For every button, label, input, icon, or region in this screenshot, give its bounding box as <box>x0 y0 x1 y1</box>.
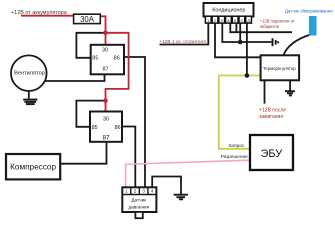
svg-text:+12В от аккумулятора: +12В от аккумулятора <box>11 10 68 16</box>
svg-text:Датчик обмораживания: Датчик обмораживания <box>285 9 333 14</box>
svg-text:86: 86 <box>114 56 120 62</box>
svg-text:30: 30 <box>102 48 108 54</box>
svg-text:87: 87 <box>102 135 110 142</box>
svg-text:30: 30 <box>103 117 109 123</box>
svg-text:30А: 30А <box>80 15 95 24</box>
svg-text:86: 86 <box>114 125 120 131</box>
svg-text:85: 85 <box>92 125 98 131</box>
svg-text:Запрос: Запрос <box>228 143 245 149</box>
svg-text:Кондиционер: Кондиционер <box>212 7 245 13</box>
svg-text:Компрессор: Компрессор <box>10 163 56 172</box>
svg-text:+12В после: +12В после <box>259 108 286 114</box>
svg-text:Датчик: Датчик <box>131 198 147 203</box>
svg-text:С: С <box>240 19 243 23</box>
svg-text:Вентилятор: Вентилятор <box>14 71 45 77</box>
svg-text:Разрешение: Разрешение <box>221 154 248 159</box>
svg-text:Терморегулятор: Терморегулятор <box>263 66 296 71</box>
svg-text:Д: Д <box>247 19 250 23</box>
svg-text:2: 2 <box>214 19 216 23</box>
svg-text:87: 87 <box>102 67 108 73</box>
svg-text:3: 3 <box>221 19 223 23</box>
svg-text:давления: давления <box>128 204 149 209</box>
svg-text:1: 1 <box>207 19 209 23</box>
svg-text:габаритов: габаритов <box>260 24 279 29</box>
svg-text:зажигания: зажигания <box>259 114 283 120</box>
svg-text:ЭБУ: ЭБУ <box>261 148 283 160</box>
svg-text:А: А <box>227 19 230 23</box>
svg-text:+12В 1 ск. отопителя: +12В 1 ск. отопителя <box>159 39 206 45</box>
svg-text:85: 85 <box>92 56 98 62</box>
